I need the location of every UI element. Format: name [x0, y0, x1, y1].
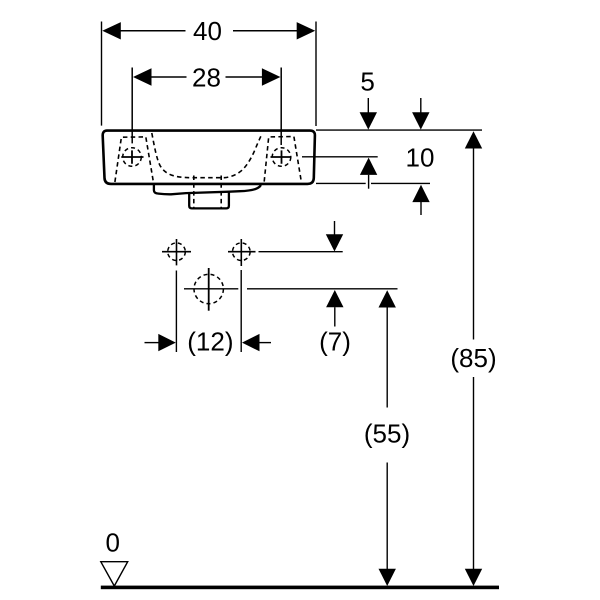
svg-text:(55): (55): [364, 419, 410, 449]
svg-text:0: 0: [105, 528, 119, 558]
svg-text:(7): (7): [319, 326, 351, 356]
svg-text:28: 28: [192, 63, 221, 93]
svg-text:(12): (12): [187, 326, 233, 356]
svg-text:5: 5: [360, 67, 374, 97]
svg-text:(85): (85): [450, 343, 496, 373]
svg-text:10: 10: [406, 143, 435, 173]
svg-text:40: 40: [193, 16, 222, 46]
